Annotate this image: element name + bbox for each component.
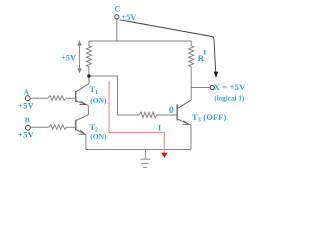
terminal C (open circle) — [115, 15, 119, 19]
resistor (base of T2) — [49, 125, 75, 130]
svg-text:C: C — [114, 5, 120, 14]
resistor R' (right pull-up, collector load of T3) — [189, 41, 194, 100]
wire: ground rail — [86, 149, 191, 151]
wire: junction to T3 base resistor — [90, 76, 137, 115]
wire: T2 emitter down to ground rail — [85, 135, 87, 150]
ground symbol — [140, 150, 150, 168]
wire B to resistor — [30, 126, 48, 128]
svg-text:B: B — [25, 116, 30, 125]
terminal X (open circle) — [210, 85, 214, 89]
wire A to resistor — [30, 97, 48, 99]
resistor (T3 base drive) — [137, 112, 177, 117]
terminal A — [25, 96, 30, 101]
wire: T3 emitter down to ground rail — [190, 125, 192, 149]
+5V measurement double arrow beside left resistor — [77, 40, 81, 73]
svg-text:(logical 1): (logical 1) — [214, 94, 245, 102]
svg-text:(ON): (ON) — [90, 132, 107, 141]
red current path I — [109, 81, 168, 158]
svg-text:R: R — [198, 53, 205, 63]
transistor T1 — [76, 78, 89, 106]
transistor T3 — [177, 100, 191, 125]
svg-text:+5V: +5V — [18, 100, 35, 110]
svg-text:+5V: +5V — [61, 53, 77, 63]
svg-text:0: 0 — [169, 105, 174, 116]
svg-text:I: I — [158, 123, 161, 132]
svg-text:A: A — [24, 88, 30, 97]
terminal B — [26, 125, 31, 130]
wire: +5V top rail — [89, 40, 191, 42]
node: junction dot (collector of T1 / resistor / drive wire) — [87, 74, 90, 77]
resistor (base of T1) — [48, 96, 75, 101]
wire: output branch to terminal X — [191, 87, 210, 89]
transistor T2 — [76, 115, 89, 135]
svg-text:+5V: +5V — [18, 130, 35, 140]
resistor (left pull-up, collector load of T1/T2) — [86, 41, 91, 74]
svg-text:(ON): (ON) — [90, 96, 107, 105]
svg-text:T3 (OFF): T3 (OFF) — [192, 113, 226, 124]
wire: T1 emitter to T2 collector — [87, 105, 89, 114]
svg-text:X = +5V: X = +5V — [214, 82, 246, 92]
wire: supply lead from terminal C down to top rail — [116, 19, 118, 41]
annotation arrow from C to output X — [120, 20, 218, 79]
